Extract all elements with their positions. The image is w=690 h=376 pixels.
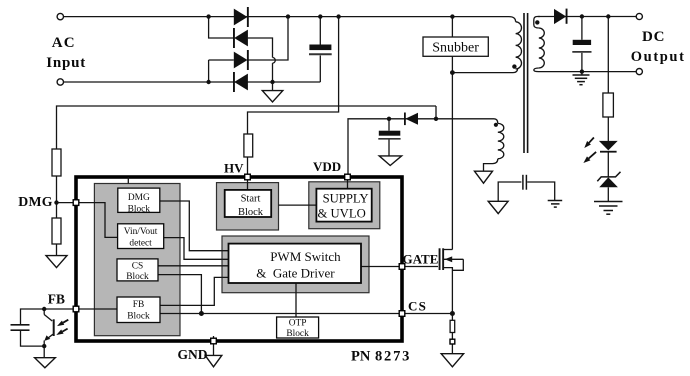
svg-text:CS: CS	[132, 262, 143, 272]
svg-text:DC: DC	[642, 29, 665, 45]
svg-text:& Gate Driver: & Gate Driver	[256, 265, 335, 280]
svg-text:Block: Block	[126, 272, 149, 282]
svg-text:GATE: GATE	[403, 252, 439, 267]
svg-text:8273: 8273	[375, 349, 411, 365]
svg-text:Start: Start	[241, 193, 261, 204]
svg-text:Snubber: Snubber	[432, 41, 479, 56]
svg-text:Input: Input	[46, 55, 86, 71]
svg-text:& UVLO: & UVLO	[317, 206, 365, 220]
svg-text:detect: detect	[129, 238, 152, 248]
svg-text:OTP: OTP	[289, 319, 307, 329]
svg-text:HV: HV	[224, 161, 244, 176]
svg-text:PWM Switch: PWM Switch	[270, 249, 341, 264]
svg-text:Block: Block	[286, 329, 309, 339]
svg-text:Output: Output	[631, 49, 686, 65]
svg-text:PN: PN	[351, 349, 371, 365]
svg-text:DMG: DMG	[18, 194, 53, 209]
svg-text:SUPPLY: SUPPLY	[323, 192, 369, 206]
svg-text:Block: Block	[128, 204, 151, 214]
svg-text:FB: FB	[133, 300, 144, 310]
svg-text:GND: GND	[178, 347, 208, 362]
svg-text:DMG: DMG	[128, 193, 150, 203]
svg-text:CS: CS	[408, 299, 427, 314]
svg-text:Block: Block	[238, 207, 264, 218]
svg-text:AC: AC	[52, 35, 76, 51]
svg-text:Block: Block	[127, 311, 150, 321]
svg-text:Vin/Vout: Vin/Vout	[124, 227, 158, 237]
svg-text:VDD: VDD	[313, 159, 341, 174]
svg-text:FB: FB	[48, 292, 65, 307]
